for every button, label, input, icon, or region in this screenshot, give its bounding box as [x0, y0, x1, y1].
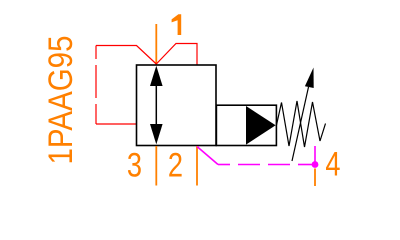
svg-text:4: 4	[325, 145, 340, 184]
port 2 leader line	[196, 146, 198, 186]
pilot line red left branch top horizontal	[96, 46, 156, 65]
flow arrow bottom head	[150, 124, 163, 144]
drain line dash 2	[238, 164, 260, 166]
drain line dash 4	[298, 164, 312, 166]
flow arrow top head	[150, 66, 163, 86]
svg-text:3: 3	[127, 145, 142, 184]
drain line dash 3	[268, 164, 290, 166]
flow arrow shaft	[155, 84, 157, 126]
spring	[277, 101, 326, 147]
port 4 leader line	[314, 169, 316, 187]
node 4 junction dot	[312, 161, 319, 168]
solenoid box	[216, 105, 276, 145]
port 3 leader line	[155, 146, 157, 186]
solenoid triangle	[246, 106, 276, 145]
svg-text:2: 2	[168, 145, 183, 184]
adjustment arrow head	[305, 68, 314, 89]
pilot line red right branch	[156, 44, 197, 65]
drain vertical	[314, 146, 316, 165]
port 1 label	[172, 14, 182, 35]
port 1 leader line	[155, 24, 157, 65]
main valve box	[137, 65, 217, 146]
adjustment arrow shaft	[292, 87, 309, 161]
pilot line red left vertical dashed	[95, 46, 97, 60]
pilot line red bottom horizontal	[96, 123, 137, 125]
drain line dash 1	[218, 164, 230, 166]
svg-text:1PAAG95: 1PAAG95	[42, 36, 80, 165]
drain line diagonal	[197, 147, 218, 165]
